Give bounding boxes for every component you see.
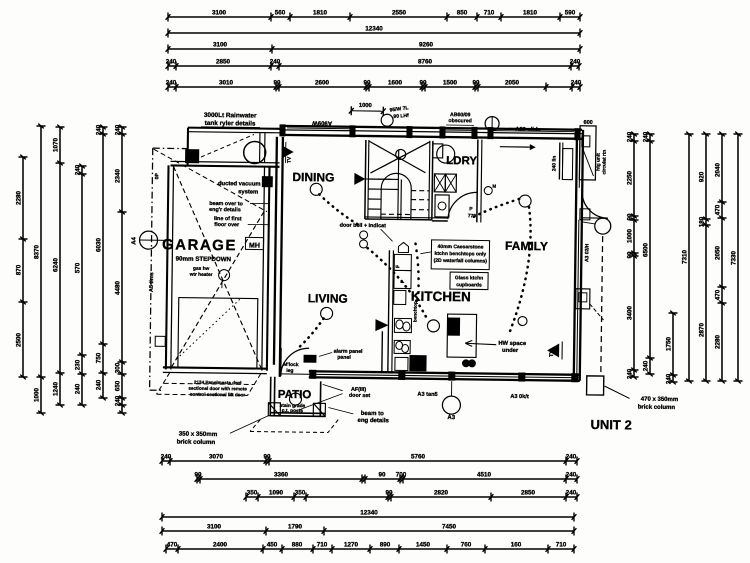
dimension row top-4: 240/2850/240/8760/240 (166, 59, 582, 71)
dimension column left-5: 240/6030/750/240 (96, 124, 108, 400)
svg-text:600: 600 (583, 120, 592, 126)
svg-text:3100: 3100 (213, 42, 228, 49)
svg-text:240: 240 (161, 454, 172, 461)
dimension row bottom-3: 350/1090/350/90/2820/2850/240 (244, 490, 580, 502)
svg-text:5760: 5760 (411, 454, 426, 461)
brick column 470x350 at southeast corner (587, 376, 604, 395)
svg-text:240: 240 (627, 131, 634, 142)
svg-text:3100: 3100 (207, 524, 222, 531)
svg-text:590: 590 (565, 10, 576, 17)
dimension row bottom-6: 470/2400/450/880/710/1270/890/1450/760/160/710 (164, 542, 577, 554)
stair enclosure walls (365, 140, 433, 220)
svg-text:6030: 6030 (96, 238, 103, 253)
caesarstone benchtop boxed note (420, 240, 489, 270)
stair direction arrow (354, 173, 391, 185)
dimension column right-1: 240/2250/90/1000/90/3400/240 (627, 131, 639, 379)
svg-text:7450: 7450 (442, 524, 457, 531)
svg-text:A50 slide: A50 slide (515, 127, 541, 133)
leader from brick column note (605, 386, 630, 398)
svg-text:M: M (492, 184, 496, 189)
TV marker dining north-west corner (283, 142, 294, 163)
beam to eng details note (328, 407, 390, 424)
svg-text:760: 760 (461, 542, 472, 549)
svg-text:3100: 3100 (212, 10, 227, 17)
svg-text:240: 240 (166, 80, 177, 87)
svg-text:A3 02/H: A3 02/H (584, 243, 590, 262)
svg-text:DINING: DINING (292, 170, 334, 185)
wall piers on top wall (280, 125, 285, 136)
svg-text:TV: TV (287, 156, 293, 163)
svg-text:wtr heater: wtr heater (189, 272, 213, 278)
kitchen cooktop burners (394, 340, 410, 353)
laundry trough cabinet (435, 195, 449, 217)
svg-text:650: 650 (115, 380, 122, 391)
door arc: living room to patio (281, 348, 309, 376)
svg-text:90: 90 (419, 80, 427, 87)
svg-text:2820: 2820 (434, 490, 449, 497)
meals leg note at patio door (283, 362, 299, 374)
svg-text:240: 240 (166, 59, 177, 66)
svg-text:sectional door with remote: sectional door with remote (188, 386, 247, 392)
family vacuum point circle (518, 316, 527, 325)
svg-text:A3 0k/t: A3 0k/t (510, 394, 529, 400)
svg-text:710: 710 (317, 542, 328, 549)
fridge space box (394, 254, 411, 270)
svg-text:300: 300 (115, 362, 122, 373)
svg-text:470 x 350mm: 470 x 350mm (641, 397, 678, 403)
living light circle (321, 307, 333, 319)
dotted path dining to door bell (319, 194, 359, 225)
laundry WM tap marker (484, 184, 496, 195)
svg-text:90 LHf: 90 LHf (393, 113, 409, 120)
dimension column left-3: 1070/6240/1240 (53, 125, 65, 408)
svg-text:160: 160 (511, 542, 522, 549)
dimension row bottom-4: 12340 (160, 510, 577, 522)
svg-text:2850: 2850 (216, 59, 231, 66)
svg-text:7330: 7330 (731, 251, 738, 266)
A3 door marker circle (442, 381, 461, 421)
kitchen bench west edge (island wall) (388, 250, 394, 372)
family light circle (519, 195, 531, 207)
gas hw note and circle (188, 266, 229, 289)
svg-text:2250: 2250 (627, 171, 634, 186)
svg-text:3010: 3010 (219, 80, 234, 87)
svg-text:700: 700 (396, 472, 407, 479)
svg-text:180: 180 (699, 216, 706, 227)
svg-text:PATIO: PATIO (278, 389, 312, 401)
svg-text:system: system (238, 189, 258, 195)
svg-text:1000: 1000 (359, 103, 372, 109)
svg-text:3400: 3400 (627, 306, 634, 321)
svg-text:2400: 2400 (213, 542, 228, 549)
svg-text:350: 350 (247, 490, 258, 497)
entry arrow along top wall (500, 144, 536, 150)
garage west wall (166, 165, 174, 369)
garage interior dotted diagonal (175, 298, 240, 361)
svg-text:90: 90 (263, 454, 271, 461)
patio brick column southwest 350x350 (268, 403, 280, 416)
svg-text:brick column: brick column (177, 439, 216, 447)
svg-text:710: 710 (556, 542, 567, 549)
svg-text:90: 90 (627, 213, 634, 221)
svg-text:(2D waterfall columns): (2D waterfall columns) (434, 258, 488, 265)
dimension row bottom-2: 90/3360/90/700/4510/240 (194, 472, 579, 484)
stair newel circle (396, 149, 406, 159)
svg-text:240: 240 (566, 490, 577, 497)
svg-text:p.t. posts: p.t. posts (282, 408, 304, 414)
svg-text:240: 240 (566, 454, 577, 461)
kitchen wall oven tower (394, 290, 406, 304)
stair centre stringer (397, 150, 400, 219)
svg-text:door set: door set (349, 393, 371, 399)
svg-text:1810: 1810 (313, 10, 328, 17)
alarm panel note (304, 348, 363, 363)
exterior wall: top of main unit (double line with window band) (280, 126, 582, 139)
svg-text:12340: 12340 (365, 26, 383, 33)
svg-text:2134 Panelmasta dwd: 2134 Panelmasta dwd (194, 380, 242, 386)
dimension row top-1: 3100/560/1810/2550/850/710/1810/590 (166, 10, 583, 22)
svg-text:240: 240 (96, 124, 103, 135)
svg-text:LDRY: LDRY (446, 155, 477, 167)
stair diagonal cross braces (368, 141, 429, 174)
floor waste dots (462, 360, 475, 367)
porch step square (580, 209, 590, 220)
svg-text:A909W: A909W (312, 119, 332, 125)
dimension column left-4: 240/570/230/240 (75, 164, 87, 408)
svg-text:90: 90 (627, 251, 634, 259)
dining light circle (310, 183, 322, 195)
svg-text:1090: 1090 (269, 490, 284, 497)
svg-text:2550: 2550 (392, 10, 407, 17)
svg-text:12340: 12340 (360, 510, 378, 517)
dimension column left-6: 240/2340/4480/300/650/240 (115, 124, 127, 415)
svg-text:450: 450 (267, 542, 278, 549)
svg-text:leg: leg (286, 368, 293, 374)
svg-text:ducted vacuum: ducted vacuum (218, 181, 261, 188)
laundry east wall (477, 139, 482, 222)
svg-text:4480: 4480 (115, 281, 122, 296)
dashed diagonal across tank enclosure (195, 134, 254, 161)
svg-text:cupboards: cupboards (456, 282, 482, 288)
stair curved winder arch (381, 173, 412, 219)
svg-text:eng'r details: eng'r details (209, 207, 241, 213)
patio light circle (289, 393, 301, 405)
svg-text:710: 710 (484, 10, 495, 17)
svg-text:GARAGE: GARAGE (162, 236, 237, 254)
power point box on right wall (576, 289, 604, 320)
svg-text:2050: 2050 (715, 246, 722, 261)
svg-text:1810: 1810 (523, 10, 538, 17)
dimension column left-2: 8370/1000 (34, 124, 46, 416)
entry closet nib wall (559, 143, 572, 180)
line of first floor over note (214, 216, 269, 229)
svg-text:HW space: HW space (498, 341, 527, 347)
vacuum inlet point on garage east wall (262, 177, 272, 187)
svg-text:A3 tan5: A3 tan5 (417, 392, 437, 398)
svg-text:470: 470 (715, 289, 722, 300)
pentagon symbol above fridge (398, 242, 408, 252)
svg-text:A5 tims: A5 tims (149, 272, 155, 292)
svg-text:240: 240 (115, 395, 122, 406)
svg-text:240: 240 (571, 80, 582, 87)
svg-text:1750: 1750 (666, 337, 673, 352)
svg-text:brick column: brick column (638, 405, 676, 411)
rainwater tank (circle) (244, 141, 266, 163)
svg-text:230: 230 (75, 359, 82, 370)
garage door note (188, 380, 247, 398)
kitchen sink double bowl (394, 318, 411, 332)
svg-text:350 x 350mm: 350 x 350mm (179, 431, 218, 439)
dotted path family light arc (471, 198, 519, 219)
patio note (posts) (279, 403, 305, 414)
svg-text:3070: 3070 (209, 454, 224, 461)
beam over note (209, 201, 269, 214)
dotted path living to patio door (298, 318, 323, 348)
garage interior dashed diagonal brace 2 (171, 166, 264, 367)
dimension row top-3: 3100/9260 (166, 42, 583, 54)
svg-text:F: F (395, 265, 401, 268)
kitchen light circle (427, 320, 439, 332)
stair treads (dashed, over) (381, 190, 429, 215)
laundry appliance circle (437, 145, 455, 163)
svg-text:2340: 2340 (115, 169, 122, 184)
dimension column right-4: 7310 (682, 132, 694, 384)
kitchen nib wall at living side (375, 319, 389, 372)
svg-text:under: under (502, 348, 519, 354)
svg-text:8760: 8760 (418, 59, 433, 66)
dim 1000 above entry (349, 103, 386, 116)
svg-text:90: 90 (385, 490, 393, 497)
svg-text:LIVING: LIVING (308, 291, 348, 306)
HW space under note with arrow (465, 340, 527, 354)
meter box on garage west wall (155, 336, 165, 346)
laundry south wall segment (432, 218, 448, 221)
svg-text:Glass ktchn: Glass ktchn (455, 275, 483, 281)
svg-text:UNIT 2: UNIT 2 (590, 417, 631, 433)
svg-text:1270: 1270 (344, 542, 359, 549)
svg-text:0P: 0P (154, 172, 160, 179)
garage manhole box MH (245, 237, 263, 249)
svg-text:1000: 1000 (627, 229, 634, 244)
ducted vacuum note with leaders (218, 181, 267, 196)
dotted trail near caesarstone leader (415, 244, 419, 302)
dimension row top-2: 12340 (166, 26, 583, 38)
patio enclosure walls (270, 377, 326, 417)
flue rotated note (595, 150, 607, 175)
svg-text:750: 750 (96, 352, 103, 363)
garage interior dashed diagonal brace 3 (172, 210, 264, 367)
garage east wall (262, 167, 270, 371)
svg-text:9260: 9260 (419, 42, 434, 49)
svg-text:3000Lt Rainwater: 3000Lt Rainwater (204, 112, 257, 120)
svg-text:850: 850 (457, 10, 468, 17)
rainwater tank enclosure walls at top of garage (171, 127, 280, 166)
svg-text:90: 90 (363, 80, 371, 87)
stair treads (solid) (368, 179, 398, 209)
svg-text:2870: 2870 (699, 323, 706, 338)
350x350 brick column note (177, 415, 269, 447)
svg-text:1450: 1450 (416, 542, 431, 549)
svg-text:floor over: floor over (214, 222, 240, 228)
brick column note 470x350 (638, 397, 679, 412)
svg-text:570: 570 (75, 262, 82, 273)
svg-text:470: 470 (715, 204, 722, 215)
svg-text:beam to: beam to (361, 411, 384, 417)
svg-text:350: 350 (295, 490, 306, 497)
svg-text:90: 90 (472, 80, 480, 87)
svg-text:1240: 1240 (53, 382, 60, 397)
svg-text:90: 90 (194, 472, 202, 479)
svg-text:1000: 1000 (34, 388, 41, 403)
svg-text:TV: TV (549, 350, 555, 357)
svg-text:6500: 6500 (643, 243, 650, 258)
svg-text:2600: 2600 (315, 80, 330, 87)
svg-text:panel: panel (337, 355, 351, 361)
heater flue box outside right wall (579, 126, 596, 180)
laundry tub unit on left wall (433, 144, 443, 158)
svg-text:3360: 3360 (274, 472, 289, 479)
svg-text:2040: 2040 (715, 163, 722, 178)
entry door arc in right wall (582, 192, 608, 218)
svg-text:6240: 6240 (53, 258, 60, 273)
svg-text:240 lin: 240 lin (551, 156, 557, 172)
dotted path door bell to kitchen (367, 248, 429, 320)
svg-text:eng details: eng details (357, 418, 389, 424)
laundry door arc (448, 192, 477, 219)
patio brick column southeast 350x350 (313, 403, 325, 416)
svg-text:2050: 2050 (505, 80, 520, 87)
dimension column right-5: 920/180/2870 (699, 132, 711, 384)
svg-text:2280: 2280 (715, 335, 722, 350)
exterior wall: bottom of main unit (280, 371, 580, 381)
svg-text:2280: 2280 (16, 191, 23, 206)
svg-text:KITCHEN: KITCHEN (411, 289, 471, 305)
svg-text:4510: 4510 (477, 472, 492, 479)
eaves dashed outline left of garage (150, 148, 188, 390)
exterior wall: right side of main unit (574, 130, 583, 381)
garage inset dashed rectangle (car space) (178, 298, 258, 369)
svg-text:2500: 2500 (16, 333, 23, 348)
svg-text:obscured: obscured (448, 118, 471, 124)
svg-text:880: 880 (292, 542, 303, 549)
garage roller door opening at bottom (dashed) (157, 372, 170, 394)
TV point marker in family room (547, 341, 562, 359)
svg-text:90: 90 (378, 472, 386, 479)
svg-text:circulat rtn: circulat rtn (601, 150, 607, 175)
svg-text:1790: 1790 (288, 524, 303, 531)
HW unit enclosure (447, 314, 477, 357)
svg-text:240: 240 (643, 360, 650, 371)
svg-text:A3: A3 (447, 415, 455, 421)
downpipe box at tank enclosure west end (186, 150, 199, 163)
svg-text:240: 240 (643, 131, 650, 142)
pantry box (394, 270, 411, 288)
dimension column right-6: 2040/470/2050/470/2280 (715, 132, 727, 384)
dimension column right-3: 1750/240 (666, 311, 678, 385)
rainwater tank note (201, 112, 260, 128)
svg-text:2850: 2850 (521, 490, 536, 497)
svg-text:870: 870 (16, 264, 23, 275)
svg-text:240: 240 (566, 472, 577, 479)
wall piers on bottom wall (310, 370, 316, 378)
svg-text:8370: 8370 (34, 245, 41, 260)
washer and dryer boxes with cross (434, 174, 456, 192)
svg-text:door bell + indicat: door bell + indicat (340, 223, 387, 230)
svg-text:90: 90 (273, 80, 281, 87)
svg-text:ktchn benchtops only: ktchn benchtops only (435, 251, 487, 258)
svg-text:240: 240 (666, 373, 673, 384)
exterior wall: left side of main unit (dining/living west wall) (274, 137, 283, 377)
garage bottom wall (163, 367, 267, 373)
dimension row bottom-5: 3100/1790/7450 (160, 524, 577, 536)
dimension column right-7: 7330 (731, 132, 743, 384)
svg-text:FAMILY: FAMILY (505, 239, 548, 254)
svg-text:P: P (469, 206, 473, 212)
window note AB60/09 obscured (446, 112, 474, 125)
dotted path family down to kitchen (509, 207, 531, 333)
svg-text:240: 240 (75, 383, 82, 394)
svg-text:240: 240 (96, 379, 103, 390)
svg-text:gas hw: gas hw (193, 266, 210, 272)
svg-text:920: 920 (699, 171, 706, 182)
svg-text:MH: MH (249, 242, 260, 249)
svg-text:240: 240 (627, 368, 634, 379)
swing door radius note P779 (468, 206, 477, 219)
svg-text:90mm STEPDOWN: 90mm STEPDOWN (176, 255, 232, 263)
dimension column right-2: 240/6500/240 (643, 131, 655, 376)
svg-text:benchtop: benchtop (412, 301, 417, 322)
svg-text:240: 240 (115, 124, 122, 135)
A4 window marker circle on garage west wall (131, 231, 167, 249)
svg-text:240: 240 (270, 59, 281, 66)
svg-text:control sectional lift door: control sectional lift door (190, 392, 245, 398)
svg-text:tank ryler details: tank ryler details (205, 120, 256, 128)
svg-text:1070: 1070 (53, 138, 60, 153)
glass cupboards boxed note (450, 272, 488, 289)
ceiling fan circle on top wall (485, 117, 499, 131)
svg-text:240: 240 (570, 59, 581, 66)
svg-text:A4: A4 (131, 236, 137, 244)
kitchen under-bench oven (dark) (395, 355, 426, 370)
svg-text:240: 240 (75, 164, 82, 175)
door bell note (339, 223, 392, 249)
AF door set note (298, 384, 370, 411)
dimension column left-1: 2280/870/2500 (16, 155, 28, 380)
dimension row top-5: 240/3010/90/2600/90/1600/90/1500/90/2050/240 (166, 80, 583, 92)
porch light circle A1 (582, 218, 611, 234)
svg-text:890: 890 (380, 542, 391, 549)
svg-text:1600: 1600 (388, 80, 403, 87)
svg-text:40mm Caesarstone: 40mm Caesarstone (438, 244, 484, 251)
svg-text:1500: 1500 (443, 80, 458, 87)
svg-text:htg unit: htg unit (595, 153, 601, 171)
svg-text:7310: 7310 (682, 250, 689, 265)
patio dashed surround below (250, 418, 338, 432)
eaves dashed line right of unit (601, 236, 603, 376)
meter scribble note above wall (381, 105, 409, 127)
dimension row bottom-1: 240/3070/90/5760/240 (160, 454, 580, 466)
garage interior dashed diagonal brace 1 (153, 149, 268, 211)
svg-text:470: 470 (167, 542, 178, 549)
svg-text:560: 560 (275, 10, 286, 17)
